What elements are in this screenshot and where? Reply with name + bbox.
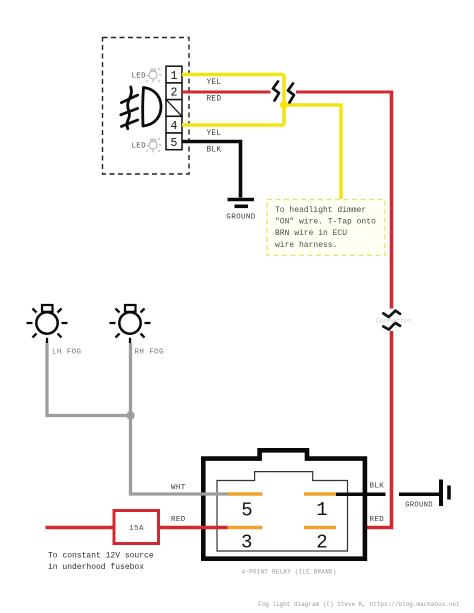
relay pin 2 terminal [304,526,336,529]
svg-text:LED-: LED- [132,143,151,151]
relay pin number 1 [316,499,327,521]
label RED (relay) [370,516,385,524]
relay pin 1 terminal [304,492,336,495]
label RED (fuse side) [171,516,186,524]
label 4-POINT RELAY [241,569,336,576]
svg-text:BLK: BLK [207,147,222,155]
label LH FOG [52,349,82,357]
relay inner body [217,472,348,551]
wire gray LH fog [47,343,131,416]
footer credit [258,601,460,608]
relay pin number 5 [241,499,252,521]
svg-text:GROUND: GROUND [226,214,256,222]
switch assembly dashed box [103,38,190,175]
svg-text:LED-: LED- [132,73,151,81]
wire RED supply to fuse [46,526,115,529]
svg-text:YEL: YEL [207,130,222,138]
wire RED main vertical (upper) [390,91,394,309]
relay K1 outer case [203,450,365,558]
svg-text:BRN wire in ECU: BRN wire in ECU [275,229,347,238]
connector break marks on red vertical [383,311,400,330]
svg-text:Connector: Connector [376,318,412,325]
svg-text:5: 5 [241,499,252,521]
fuse F1 15A [114,511,159,544]
svg-text:2: 2 [316,532,327,554]
svg-text:1: 1 [171,70,178,83]
wire yellow pin4 [182,123,284,127]
wire RED pin2 (left of break) [182,91,271,94]
svg-text:"ON" wire. T-Tap onto: "ON" wire. T-Tap onto [275,218,376,227]
svg-text:GROUND: GROUND [405,502,433,510]
wire yellow pin1 to loop [182,73,284,77]
label YEL (pin4) [207,130,222,138]
wire gray RH fog down to relay [131,343,228,494]
fog lamp LH [27,305,68,343]
connector J1 (5-pin) [166,66,182,150]
svg-text:15A: 15A [129,525,144,533]
fog light switch icon [121,87,161,129]
wire BLK to ground (right of red) [399,493,439,497]
LED indicator label (pin 1) [132,68,162,82]
label RED (pin2) [207,96,222,104]
svg-text:YEL: YEL [207,79,222,87]
label WHT [171,484,186,492]
label YEL (pin1) [207,79,222,87]
svg-text:1: 1 [316,499,327,521]
junction yellow [280,101,288,109]
svg-text:4: 4 [171,120,178,133]
svg-text:To constant 12V source: To constant 12V source [48,552,154,561]
label RH FOG [135,349,165,357]
svg-text:2: 2 [171,87,178,100]
svg-text:RH FOG: RH FOG [135,349,165,357]
wire yellow branch to dimmer note [284,105,341,199]
label Connector [376,318,412,325]
relay pin 3 terminal [228,526,263,529]
wire break marks on red wire [273,82,294,103]
svg-text:in underhood fusebox: in underhood fusebox [48,563,144,572]
svg-text:Fog light diagram (C) Steve K,: Fog light diagram (C) Steve K, https://b… [258,601,460,608]
wire RED fuse to relay pin3 [159,526,228,529]
svg-text:WHT: WHT [171,484,186,492]
label GROUND (relay) [405,502,433,510]
svg-text:RED: RED [171,516,186,524]
relay pin 5 terminal [228,492,263,495]
svg-text:3: 3 [241,532,252,554]
wire BLK pin5 to ground [182,142,241,198]
svg-text:4-POINT RELAY (ILE BRAND): 4-POINT RELAY (ILE BRAND) [241,569,336,576]
fog lamp RH [110,305,151,343]
wire RED main vertical (lower) [336,331,392,528]
wire BLK relay pin1 to ground (left of red) [336,493,386,497]
wire yellow loop vertical [282,75,286,126]
junction gray [126,411,134,419]
note box: headlight dimmer tap [267,200,385,256]
relay pin number 2 [316,532,327,554]
svg-text:wire harness.: wire harness. [275,241,337,250]
ground symbol (switch) [228,200,255,207]
svg-text:To headlight dimmer: To headlight dimmer [275,206,366,215]
label GROUND (switch) [226,214,256,222]
label: To constant 12V source [48,552,154,572]
relay pin number 3 [241,532,252,554]
svg-text:BLK: BLK [370,483,385,491]
ground symbol (relay) [441,480,449,507]
label BLK (relay) [370,483,385,491]
svg-text:RED: RED [207,96,222,104]
label BLK (pin5) [207,147,222,155]
svg-text:LH FOG: LH FOG [52,349,82,357]
svg-text:RED: RED [370,516,385,524]
wire RED pin2 (right of break) [296,91,392,94]
LED indicator label (pin 5) [132,138,162,152]
svg-text:5: 5 [171,137,178,150]
